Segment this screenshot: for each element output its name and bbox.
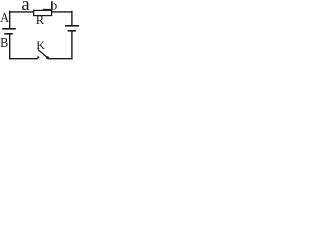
svg-text:a: a [21, 0, 29, 15]
svg-text:b: b [51, 0, 58, 13]
svg-text:A: A [0, 11, 9, 26]
svg-text:K: K [36, 38, 45, 52]
svg-text:R: R [36, 13, 45, 27]
svg-text:B: B [0, 36, 8, 51]
